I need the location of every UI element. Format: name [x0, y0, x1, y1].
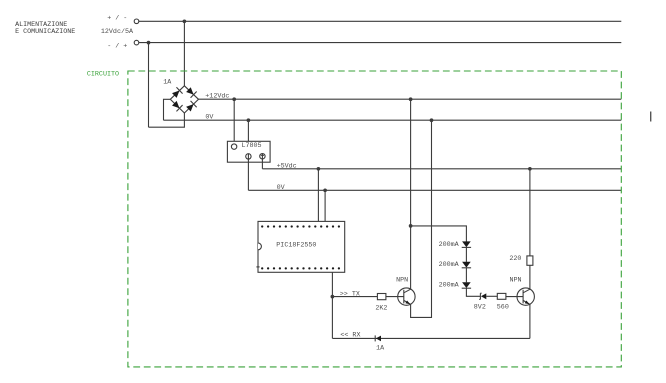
IC pin1 tick: [256, 266, 259, 268]
svg-text:8V2: 8V2: [474, 304, 486, 312]
wire D2-D3: [465, 268, 467, 283]
wire regulator gnd down: [247, 159, 249, 190]
wire 0V to PIC: [324, 190, 326, 221]
svg-text:0V: 0V: [277, 184, 285, 192]
zener D5 8V2: [479, 293, 486, 299]
node junction J10: [528, 167, 532, 171]
diode D3 200mA: [462, 282, 471, 288]
node junction J5: [317, 167, 321, 171]
node junction J6: [323, 188, 327, 192]
regulator U2 L7805 body: [227, 141, 270, 162]
svg-text:NPN: NPN: [510, 277, 522, 285]
node junction TX: [331, 295, 335, 299]
svg-text:1A: 1A: [376, 345, 385, 353]
wire chain to zener: [466, 288, 480, 296]
pin output circle: [260, 154, 265, 159]
wire +5Vdc rail: [262, 168, 621, 170]
wire PIC pin down: [331, 272, 333, 338]
pin gnd circle: [246, 154, 251, 159]
wire rail2 second supply: [139, 42, 621, 44]
node terminal - / +: [134, 40, 139, 45]
wire R3 to Q2 base: [506, 296, 523, 298]
wire 0V rail: [164, 119, 622, 121]
node terminal + / -: [134, 19, 139, 24]
wire rail2 down: [148, 43, 150, 128]
resistor R2 220: [527, 256, 533, 265]
svg-text:L7805: L7805: [242, 142, 262, 150]
IC pin dots bottom: [261, 267, 340, 269]
diode D4 1A: [375, 335, 381, 341]
svg-text:NPN: NPN: [396, 277, 408, 285]
wire TX lead: [332, 296, 377, 298]
wire zener to R3: [486, 295, 497, 297]
wire branch to diode chain: [411, 226, 467, 242]
svg-text:200mA: 200mA: [439, 241, 460, 249]
svg-text:12Vdc/5A: 12Vdc/5A: [101, 28, 134, 36]
svg-text:<< RX: << RX: [340, 332, 360, 340]
wire bridge left vertex to 0V: [164, 99, 171, 120]
svg-text:PIC18F2550: PIC18F2550: [276, 241, 316, 249]
artifact tick right edge: [650, 112, 652, 122]
svg-text:0V: 0V: [205, 114, 213, 122]
wire Q1 emitter to gnd: [411, 120, 432, 317]
node junction J1: [183, 19, 187, 23]
node junction J4: [247, 118, 251, 122]
wire Q1 collector up to +12V: [410, 99, 412, 289]
wire +12V into regulator: [233, 99, 235, 144]
wire D1-D2: [465, 247, 467, 262]
node junction J3: [232, 97, 236, 101]
svg-text:+5Vdc: +5Vdc: [277, 162, 297, 170]
border dashed CIRCUITO box: [128, 71, 621, 367]
IC U1 PIC18F2550 body: [258, 221, 345, 272]
resistor R3 560: [497, 293, 506, 299]
svg-text:220: 220: [509, 255, 521, 263]
wire RX line: [332, 337, 530, 339]
wire R1 to Q1 base: [386, 296, 404, 298]
svg-text:+ / -: + / -: [107, 14, 127, 22]
wire Q2 emitter down: [529, 304, 531, 338]
IC notch: [258, 243, 261, 250]
wire Q2 collector to R2: [529, 265, 531, 289]
diode bridge bottom-right: [185, 101, 196, 112]
svg-text:- / +: - / +: [107, 43, 127, 51]
diode D2 200mA: [462, 262, 471, 268]
node junction J8: [409, 224, 413, 228]
wire 0V 5V rail: [248, 189, 621, 191]
svg-text:CIRCUITO: CIRCUITO: [87, 71, 119, 79]
wire bottom jog to bridge: [149, 113, 185, 127]
svg-text:200mA: 200mA: [439, 281, 460, 289]
resistor R1 2K2: [377, 294, 386, 300]
wire 0V into regulator: [247, 120, 249, 153]
svg-text:+12Vdc: +12Vdc: [205, 93, 229, 101]
wire regulator out down: [261, 159, 263, 169]
svg-text:E COMUNICAZIONE: E COMUNICAZIONE: [15, 28, 75, 36]
wire +5V to PIC: [317, 169, 319, 222]
diode bridge top-left: [171, 87, 182, 98]
diode D1 200mA: [462, 241, 471, 247]
svg-text:1A: 1A: [163, 79, 172, 87]
svg-text:2K2: 2K2: [375, 304, 387, 312]
transistor Q1 NPN: [398, 288, 415, 305]
bridge rectifier B1 diamond: [170, 86, 198, 113]
node junction J7: [409, 97, 413, 101]
pin input circle: [231, 144, 236, 149]
node junction J2: [147, 41, 151, 45]
diode bridge top-right: [185, 86, 196, 97]
node junction J9: [430, 118, 434, 122]
wire rail1 top supply: [139, 20, 621, 22]
transistor Q2 NPN: [517, 288, 534, 305]
IC pin dots top: [261, 225, 340, 227]
wire +12Vdc rail: [199, 98, 622, 100]
wire R2 to +5V: [529, 169, 531, 256]
wire rail1 to bridge top: [183, 21, 185, 86]
diode bridge bottom-left: [171, 100, 182, 111]
svg-text:>> TX: >> TX: [340, 290, 360, 298]
svg-text:200mA: 200mA: [439, 261, 460, 269]
svg-text:560: 560: [497, 304, 509, 312]
